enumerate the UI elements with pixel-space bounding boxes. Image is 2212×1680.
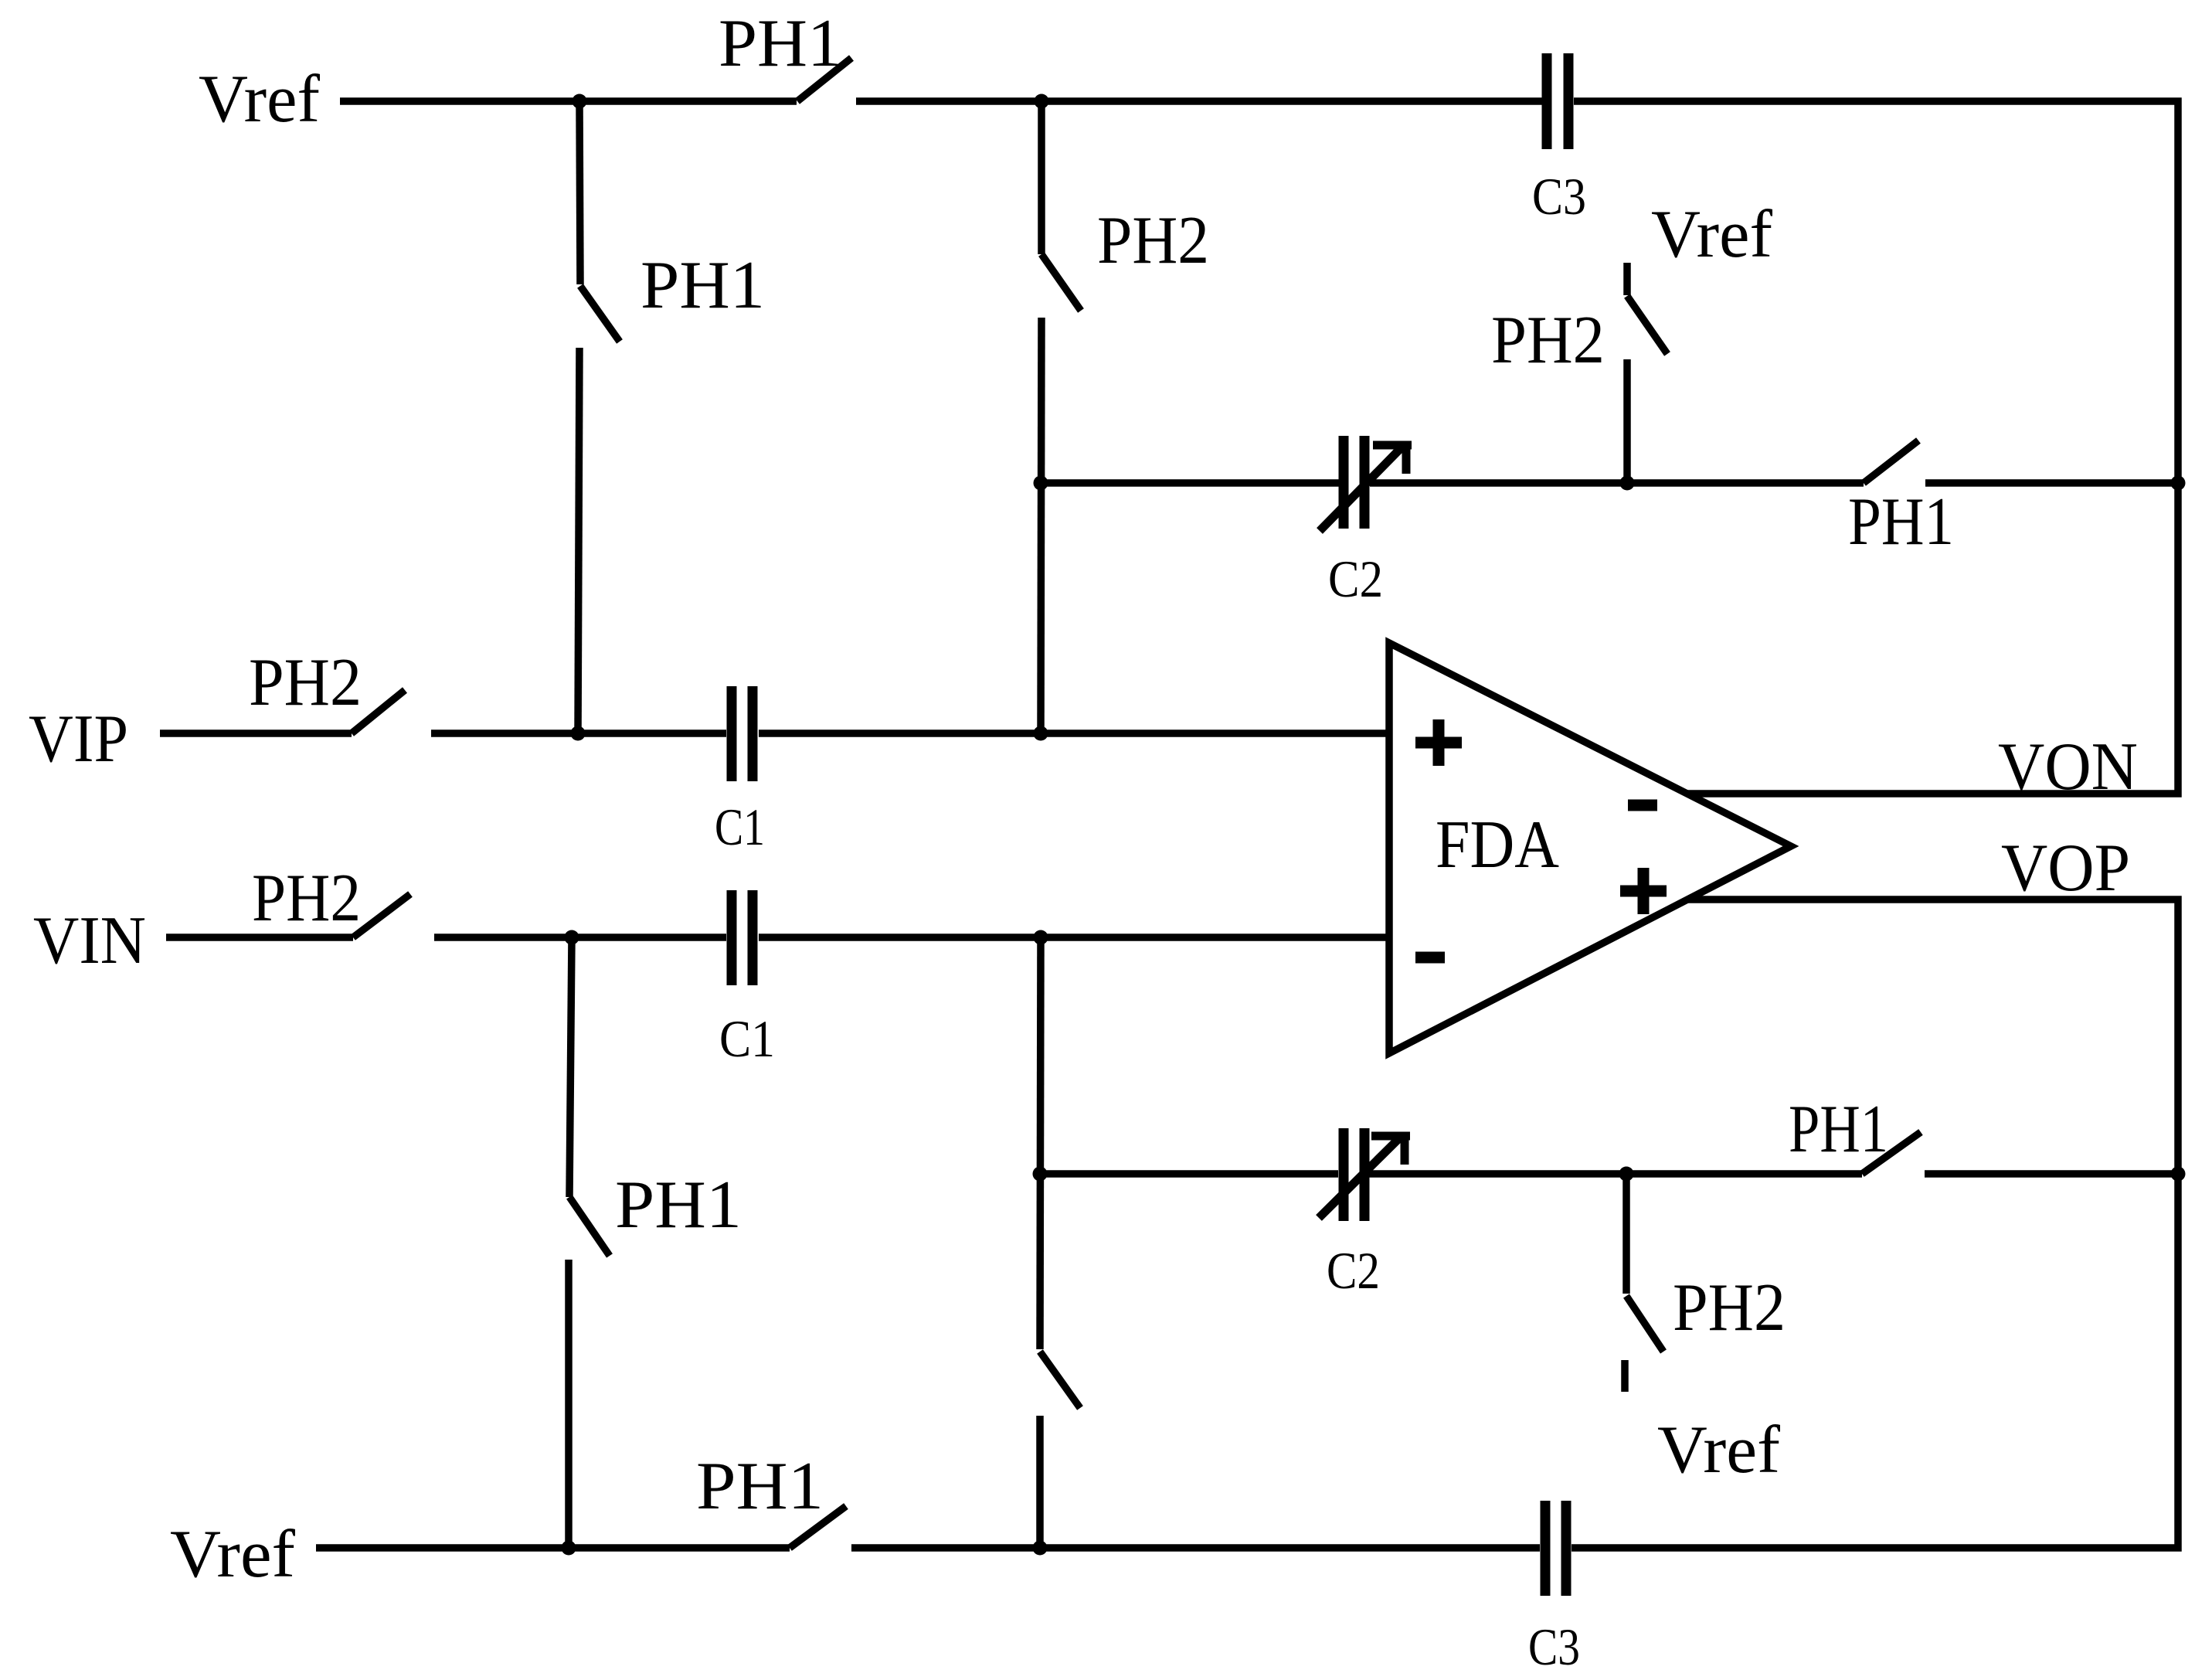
svg-text:PH1: PH1 [696, 1449, 824, 1524]
svg-text:PH2: PH2 [1673, 1270, 1786, 1345]
svg-text:PH2: PH2 [249, 645, 362, 720]
svg-text:C1: C1 [715, 797, 765, 856]
svg-text:C3: C3 [1528, 1617, 1580, 1676]
svg-text:PH1: PH1 [719, 6, 842, 81]
svg-text:PH2: PH2 [252, 861, 361, 936]
svg-text:VIN: VIN [33, 903, 146, 978]
svg-text:VOP: VOP [2001, 831, 2130, 906]
svg-text:C2: C2 [1328, 549, 1383, 608]
svg-text:FDA: FDA [1436, 808, 1559, 883]
svg-text:PH1: PH1 [615, 1168, 742, 1243]
svg-text:PH2: PH2 [1491, 303, 1605, 378]
svg-text:PH1: PH1 [1848, 485, 1954, 559]
svg-text:PH2: PH2 [1097, 203, 1209, 278]
svg-text:Vref: Vref [170, 1517, 296, 1592]
svg-text:PH1: PH1 [640, 248, 765, 323]
svg-text:Vref: Vref [1651, 197, 1773, 272]
svg-text:VON: VON [1998, 729, 2138, 804]
svg-text:Vref: Vref [1657, 1413, 1781, 1488]
svg-text:C2: C2 [1327, 1241, 1380, 1300]
svg-text:C3: C3 [1532, 167, 1586, 226]
svg-text:C1: C1 [719, 1009, 775, 1068]
svg-text:VIP: VIP [29, 702, 128, 777]
svg-text:PH1: PH1 [1789, 1092, 1888, 1167]
svg-text:Vref: Vref [199, 62, 321, 137]
